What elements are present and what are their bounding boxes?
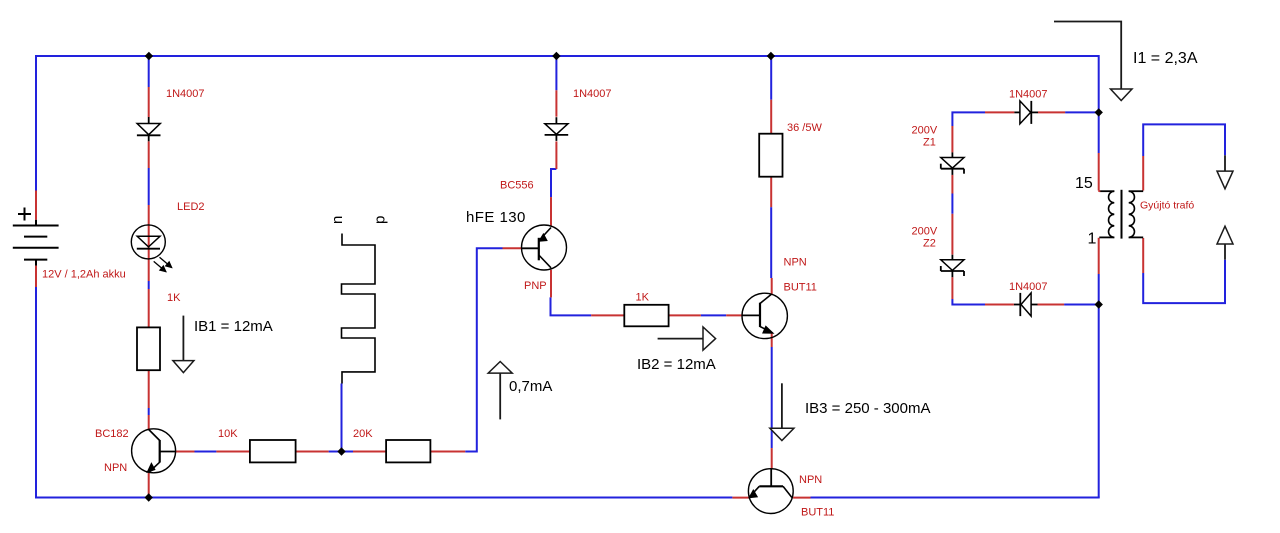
svg-text:PNP: PNP	[524, 280, 547, 292]
svg-text:BC182: BC182	[95, 428, 129, 440]
svg-text:IB1 = 12mA: IB1 = 12mA	[194, 318, 273, 335]
svg-text:BUT11: BUT11	[801, 507, 834, 519]
svg-text:p: p	[372, 216, 389, 224]
svg-text:12V / 1,2Ah akku: 12V / 1,2Ah akku	[42, 269, 126, 281]
svg-text:Z2: Z2	[923, 238, 936, 250]
svg-text:1K: 1K	[636, 292, 650, 304]
svg-text:15: 15	[1075, 175, 1093, 192]
svg-text:I1 = 2,3A: I1 = 2,3A	[1133, 50, 1198, 67]
svg-text:LED2: LED2	[177, 201, 205, 213]
svg-text:hFE 130: hFE 130	[466, 209, 526, 226]
svg-text:10K: 10K	[218, 428, 238, 440]
svg-text:BUT11: BUT11	[784, 282, 817, 294]
svg-text:IB3 = 250 - 300mA: IB3 = 250 - 300mA	[805, 400, 931, 417]
svg-text:n: n	[329, 216, 346, 224]
svg-text:1N4007: 1N4007	[166, 88, 205, 100]
svg-text:NPN: NPN	[799, 474, 822, 486]
svg-text:200V: 200V	[912, 125, 938, 137]
svg-text:1K: 1K	[167, 292, 181, 304]
svg-text:1: 1	[1088, 231, 1097, 248]
svg-text:1N4007: 1N4007	[1009, 281, 1048, 293]
svg-text:Gyújtó trafó: Gyújtó trafó	[1140, 200, 1194, 212]
svg-text:BC556: BC556	[500, 180, 534, 192]
svg-text:1N4007: 1N4007	[573, 88, 612, 100]
svg-text:0,7mA: 0,7mA	[509, 378, 552, 395]
svg-text:Z1: Z1	[923, 137, 936, 149]
svg-text:200V: 200V	[912, 226, 938, 238]
svg-text:1N4007: 1N4007	[1009, 89, 1048, 101]
svg-text:NPN: NPN	[104, 462, 127, 474]
svg-text:36 /5W: 36 /5W	[787, 122, 822, 134]
svg-text:20K: 20K	[353, 428, 373, 440]
svg-text:NPN: NPN	[784, 257, 807, 269]
svg-text:IB2 = 12mA: IB2 = 12mA	[637, 356, 716, 373]
